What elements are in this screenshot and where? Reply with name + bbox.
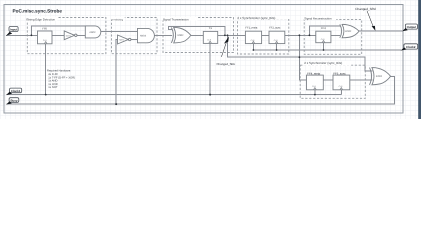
svg-text:XOR2: XOR2 [376, 75, 383, 78]
svg-text:PoC.misc.sync.Strobe: PoC.misc.sync.Strobe [13, 9, 63, 14]
svg-text:Busy: Busy [10, 99, 17, 103]
svg-text:Clock1: Clock1 [11, 89, 21, 93]
svg-text:2 x Synchronizer (sync_Bits): 2 x Synchronizer (sync_Bits) [304, 61, 342, 65]
svg-text:AND2: AND2 [140, 35, 147, 38]
svg-text:FF0: FF0 [42, 28, 47, 31]
svg-text:Rising Edge Detection: Rising Edge Detection [26, 17, 55, 21]
svg-text:Signal Reconstruction: Signal Reconstruction [304, 16, 332, 20]
svg-text:CLR: CLR [312, 85, 316, 88]
svg-text:CLR: CLR [43, 39, 47, 42]
svg-text:De-Glitching: De-Glitching [111, 18, 124, 21]
svg-text:FF3: FF3 [321, 27, 326, 30]
svg-text:Clock2: Clock2 [406, 45, 416, 49]
svg-text:FF5_sync: FF5_sync [333, 72, 346, 76]
svg-text:XOR2: XOR2 [177, 34, 184, 37]
svg-text:Signal Transmission: Signal Transmission [163, 17, 189, 21]
svg-text:Output: Output [407, 25, 417, 29]
svg-text:CLR: CLR [274, 39, 278, 42]
svg-text:Changed_SRe: Changed_SRe [217, 62, 236, 66]
svg-text:CLR: CLR [321, 38, 325, 41]
svg-text:NOT1: NOT1 [119, 39, 124, 42]
svg-text:FF1_meta: FF1_meta [246, 27, 258, 30]
svg-text:CLR: CLR [339, 85, 343, 88]
svg-text:CLR: CLR [251, 39, 255, 42]
svg-text:NOT1: NOT1 [66, 34, 71, 37]
svg-text:2 x Synchronizer (sync_Bits): 2 x Synchronizer (sync_Bits) [237, 16, 275, 20]
svg-text:FF4_meta: FF4_meta [307, 72, 320, 76]
svg-text:Changed_SRd: Changed_SRd [355, 7, 376, 11]
svg-text:XOR2: XOR2 [345, 30, 352, 33]
svg-text:CLR: CLR [207, 39, 211, 42]
svg-text:AND2: AND2 [89, 31, 96, 34]
svg-text:Input: Input [10, 28, 17, 32]
svg-text:1x NOT: 1x NOT [48, 86, 58, 89]
svg-text:FF2_sync: FF2_sync [269, 27, 281, 30]
